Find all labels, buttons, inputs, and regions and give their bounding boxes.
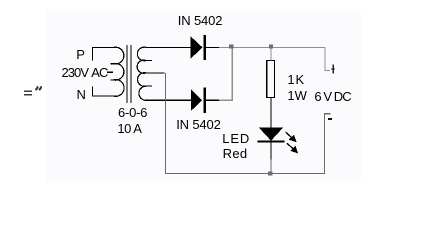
wire: secondary top lead to D1 anode [145, 46, 191, 48]
label 1W [287, 89, 307, 102]
label Red [223, 147, 248, 160]
junction node: resistor branch on top rail [269, 44, 273, 48]
label LED [222, 132, 250, 145]
label pointer dash for 230V AC [107, 71, 113, 73]
wire: secondary bottom lead to D2 anode [145, 99, 191, 101]
label 1K [287, 73, 305, 86]
junction node: D2 riser joins top rail [229, 44, 233, 48]
wire: D2 output riser [219, 47, 232, 100]
wire: bottom return rail [165, 73, 325, 174]
label + (plus terminal mark) [331, 64, 335, 73]
wire: D1 cathode to top rail [206, 46, 219, 48]
wire: top positive rail [219, 46, 325, 48]
label IN 5402 (D2) [176, 118, 220, 131]
wire: resistor R1 bottom to LED anode [270, 98, 272, 129]
diode D2 IN5402 [191, 87, 206, 112]
LED light arrow 1 [286, 132, 296, 141]
diode D1 IN5402 [191, 35, 206, 60]
LED D3 triangle [259, 128, 283, 141]
LED D3 cathode bar [258, 141, 285, 143]
LED light arrow 2 [287, 143, 297, 152]
label 6 V DC [314, 90, 350, 103]
wire: + output terminal bracket [325, 47, 330, 70]
stray artifact open quote [36, 87, 41, 89]
label 230V AC [62, 66, 108, 79]
label - (minus terminal mark) [328, 118, 332, 120]
label IN 5402 (D1) [178, 14, 222, 27]
wire: D2 cathode exit [206, 99, 219, 101]
wire: drop from rail to resistor R1 [270, 47, 272, 60]
wire: secondary center tap lead [145, 72, 165, 74]
transformer T1 primary winding [111, 47, 125, 96]
wire: LED cathode down [270, 143, 272, 161]
transformer T1 core [127, 45, 131, 103]
gray interconnect wires [219, 47, 330, 100]
transformer T1 primary terminal bracket P [92, 48, 114, 61]
wire: - terminal riser [325, 114, 331, 174]
transformer T1 primary terminal bracket N [92, 87, 114, 97]
label 10 A [117, 122, 141, 135]
label P [76, 48, 85, 61]
resistor R1 body [267, 60, 275, 97]
schematic image background [46, 11, 361, 181]
transformer T1 secondary winding [137, 47, 152, 100]
label 6-0-6 [118, 106, 147, 119]
stray artifact equals sign [24, 91, 32, 92]
junction node: LED branch on bottom rail [268, 171, 272, 175]
wire: LED cathode to bottom rail [270, 160, 272, 174]
label N [77, 88, 86, 101]
